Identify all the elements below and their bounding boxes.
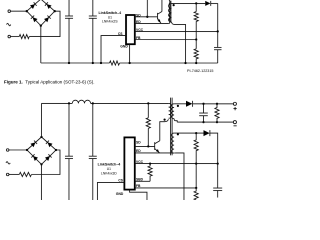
wire SD pin to base <box>135 16 158 18</box>
svg-text:GND: GND <box>116 192 124 196</box>
resistor R5 (VCC to SBD) <box>148 164 152 182</box>
T1 phasing dot <box>173 4 175 6</box>
node bias divider top <box>195 132 197 134</box>
capacitor C3 (output) <box>214 47 222 63</box>
wire bias winding return <box>174 153 184 200</box>
node VCC-output <box>217 30 219 32</box>
bridge diode D3 (lower-left) <box>31 16 38 23</box>
wire secondary top to diode D10 <box>174 103 186 105</box>
wire bias top to diode D11 <box>174 132 203 134</box>
output diode D5 <box>205 1 211 6</box>
wire bridge2 bottom down (cut) <box>40 164 42 200</box>
T2 bias phasing dot <box>177 133 179 135</box>
wire FB pin to divider (U2) <box>135 187 196 189</box>
wire J3 to bridge left <box>9 149 27 151</box>
node R3-gnd <box>195 62 197 64</box>
wire VCC pin to output node <box>135 30 218 32</box>
resistor R7 (bias divider upper) <box>194 133 198 164</box>
bridge diode D6 (upper-left) <box>30 141 37 148</box>
wire CS pin (U2) <box>97 182 124 200</box>
wire bridge bottom to ground rail <box>40 26 42 63</box>
wire SD node to top rail <box>146 0 148 17</box>
node divider top <box>195 2 197 4</box>
IC U2 box <box>124 137 134 189</box>
transformer T1 core <box>170 1 171 23</box>
node R6 bottom <box>216 121 218 123</box>
wire output right vertical <box>217 3 219 47</box>
bridge diode D7 (upper-right) <box>46 141 53 148</box>
resistor R8 (bias divider lower, cut) <box>194 188 198 200</box>
node C2-gnd <box>92 62 94 64</box>
bridge diode D9 (lower-right) <box>45 154 52 161</box>
transistor Q2 <box>155 141 160 154</box>
wire primary ground rail <box>41 62 110 64</box>
node FB-divider <box>195 38 197 40</box>
node R7-VCC <box>195 162 197 164</box>
wire CS pin <box>101 36 126 63</box>
svg-text:LNK4xx3D: LNK4xx3D <box>101 171 117 175</box>
wire Q1 collector up <box>161 0 163 12</box>
bridge diode D8 (lower-left) <box>31 154 38 161</box>
node C1-gnd <box>68 62 70 64</box>
transformer T1 primary winding <box>169 0 170 23</box>
node VCC corner <box>217 162 219 164</box>
capacitor C1 <box>65 0 73 63</box>
wire RF2 to bridge right corner <box>31 150 60 175</box>
resistor R3 (lower divider) <box>194 40 198 62</box>
svg-text:ED: ED <box>136 149 141 153</box>
AC source symbol ~ <box>7 23 11 25</box>
wire J4 to fusible resistor RF2 <box>9 173 19 175</box>
node bridge left <box>26 10 28 12</box>
capacitor C5 <box>89 103 97 200</box>
node secondary return <box>184 62 186 64</box>
T1 secondary top stub <box>172 2 175 4</box>
bridge BR2 diamond wires <box>27 137 56 164</box>
transformer T2 primary winding <box>169 103 172 118</box>
node bridge2 bottom <box>40 163 42 165</box>
T2 secondary bottom return <box>174 119 177 123</box>
AC input terminal J2 (bottom) <box>8 35 11 38</box>
node SD pull-up top <box>147 102 149 104</box>
transformer T2 core <box>171 98 173 156</box>
wire R3 to gnd rail <box>195 61 197 63</box>
node bridge bottom <box>40 25 42 27</box>
wire ED pin to emitter <box>135 22 169 24</box>
AC source symbol ~ (fig2) <box>6 162 10 164</box>
bridge diode D2 (upper-right) <box>45 2 52 9</box>
wire output return <box>177 121 233 123</box>
node GND-rail <box>128 62 130 64</box>
transistor Q1 <box>158 12 162 24</box>
wire D10 to output node <box>193 103 234 105</box>
node bridge2 right <box>55 149 57 151</box>
T2 primary phasing dot <box>163 119 165 121</box>
svg-text:LNK4xx2S: LNK4xx2S <box>102 20 118 24</box>
label plus <box>233 107 236 110</box>
label minus <box>233 125 236 127</box>
wire DC+ rail fig2 left <box>41 102 72 104</box>
wire J1 to bridge left <box>11 10 27 12</box>
capacitor C6 (output fig2) <box>199 104 208 122</box>
fusible resistor RF2 <box>19 172 31 176</box>
wire ED pin to emitter (U2) <box>135 152 174 154</box>
node output cap top <box>202 103 204 105</box>
wire SD node up to resistor R4 <box>147 103 149 117</box>
wire Q2 collector to primary <box>160 119 169 141</box>
svg-text:GND: GND <box>120 45 128 49</box>
node bridge2 left <box>26 149 28 151</box>
output diode D10 <box>186 101 193 107</box>
node bridge right <box>54 10 56 12</box>
AC input terminal J1 (top) <box>8 10 11 13</box>
wire RF1 to bridge right corner <box>29 11 60 36</box>
transformer T2 secondary winding <box>171 104 174 119</box>
T2 secondary phasing dot <box>177 105 179 107</box>
resistor R2 (upper divider) <box>194 3 198 22</box>
capacitor C4 <box>65 103 73 200</box>
node SD junction (U2) <box>147 145 149 147</box>
svg-text:SD: SD <box>136 140 141 144</box>
wire DC+ top rail <box>41 0 169 1</box>
svg-text:PI-7462-122315: PI-7462-122315 <box>187 69 213 73</box>
node FB-divider (U2) <box>195 187 197 189</box>
node output resistor top <box>216 103 218 105</box>
inductor L1 <box>72 100 90 103</box>
transformer T2 bias winding <box>171 133 174 153</box>
wire ground rail right section <box>120 62 218 64</box>
node SD junction <box>146 16 148 18</box>
node CS-gnd <box>100 62 102 64</box>
transformer T1 secondary winding <box>169 4 172 22</box>
node L1 right / C5 <box>92 102 94 104</box>
node C6 bottom <box>202 121 204 123</box>
resistor R6 (preload) <box>215 104 219 122</box>
output terminal + circle <box>233 102 236 105</box>
wire FB pin to divider <box>135 39 196 41</box>
resistor R1 on ground rail <box>110 61 120 65</box>
AC input terminal J3 (top) <box>6 149 9 152</box>
svg-text:Figure 1. Typical Application: Figure 1. Typical Application (SOT-23-6)… <box>4 80 95 85</box>
wire DC+ rail fig2 right <box>91 102 169 104</box>
bridge diode D1 (upper-left) <box>30 2 37 9</box>
svg-text:U1: U1 <box>107 167 111 171</box>
bias diode D11 <box>203 130 209 136</box>
capacitor C7 (VCC) <box>213 164 222 198</box>
T1 secondary bottom return <box>172 22 186 63</box>
wire divider mid <box>195 164 197 188</box>
node bridge2 top <box>40 136 42 138</box>
fusible resistor RF1 <box>19 34 29 38</box>
output terminal - circle <box>233 121 236 124</box>
wire SBD pin (U2) <box>135 180 150 182</box>
bridge diode D4 (lower-right) <box>44 16 51 23</box>
wire diode to output node <box>211 2 218 4</box>
wire SD pin to base (U2) <box>135 145 155 147</box>
wire J2 to fusible resistor RF1 <box>11 36 20 38</box>
wire R4 to SD node <box>147 128 149 146</box>
resistor R4 (base supply) <box>146 118 150 129</box>
wire D11 to VCC corner <box>210 133 218 164</box>
capacitor C2 <box>89 0 97 63</box>
wire GND pin <box>129 44 131 63</box>
node VCC-SBD resistor <box>149 162 151 164</box>
wire VCC pin line (U2) <box>135 163 218 165</box>
wire bridge2 top to rail <box>40 103 42 137</box>
AC input terminal J4 (bottom) <box>6 173 9 176</box>
bridge BR1 diamond wires <box>27 0 55 26</box>
node L1 left / C4 <box>68 102 70 104</box>
wire secondary top to diode <box>175 2 206 4</box>
wire GND pin (U2) <box>130 190 147 200</box>
wire R2 to FB node <box>195 22 197 40</box>
op IC U1 box <box>126 15 135 44</box>
